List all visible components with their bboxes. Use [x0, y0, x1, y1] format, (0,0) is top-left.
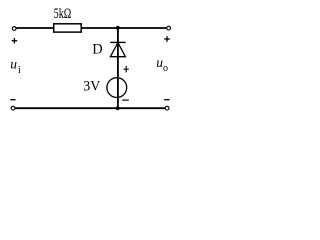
plus sign source — [124, 66, 129, 73]
wire bottom — [15, 107, 165, 109]
svg-text:ui: ui — [10, 56, 21, 75]
minus sign source — [122, 99, 129, 101]
wire source to bottom — [117, 78, 119, 108]
svg-text:3V: 3V — [83, 79, 100, 95]
svg-text:D: D — [92, 42, 102, 58]
svg-text:uo: uo — [156, 55, 168, 74]
output + terminal — [167, 26, 171, 30]
input - terminal — [11, 106, 15, 110]
minus sign input — [10, 99, 15, 101]
node junction bottom — [116, 106, 120, 110]
output - terminal — [165, 106, 169, 110]
svg-text:5kΩ: 5kΩ — [54, 6, 72, 22]
voltage source 3V — [107, 78, 127, 98]
wire diode branch — [117, 28, 119, 78]
node junction top — [116, 26, 120, 30]
resistor 5kΩ — [54, 24, 81, 32]
input + terminal — [12, 27, 16, 31]
wire top-right — [81, 27, 166, 29]
plus sign output — [164, 36, 170, 42]
wire top-left — [16, 27, 53, 29]
minus sign output — [164, 99, 169, 101]
plus sign input — [12, 38, 18, 44]
diode D — [110, 42, 125, 56]
